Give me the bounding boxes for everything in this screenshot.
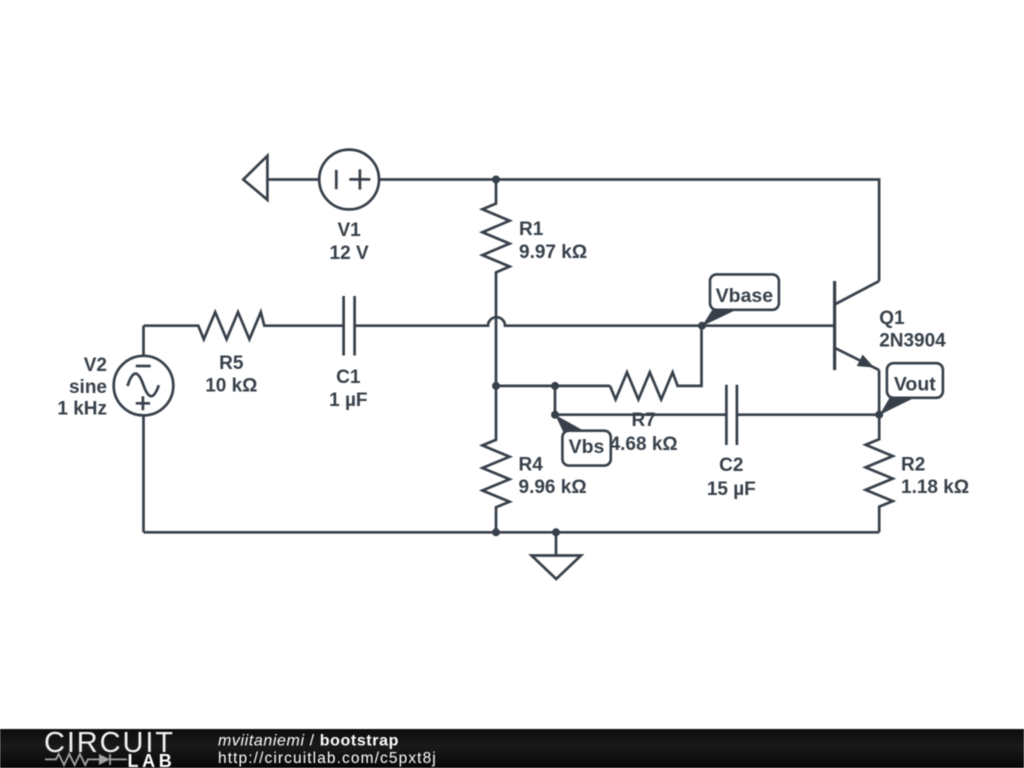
junction R4 bottom rail: [492, 528, 500, 536]
voltage source V1: [319, 150, 379, 210]
resistor R1: [482, 180, 509, 386]
svg-text:Vout: Vout: [894, 374, 936, 396]
svg-text:mviitaniemi / bootstrap: mviitaniemi / bootstrap: [218, 732, 399, 749]
svg-text:Vbs: Vbs: [569, 436, 605, 458]
svg-text:R5: R5: [219, 353, 244, 374]
svg-text:Q1: Q1: [879, 308, 905, 329]
node flag Vbs: [555, 415, 611, 466]
svg-text:R7: R7: [631, 410, 655, 431]
svg-text:12 V: 12 V: [330, 243, 369, 264]
node junction top of R1: [492, 176, 500, 184]
svg-text:15 µF: 15 µF: [707, 479, 756, 500]
junction R1/R4/R7: [492, 382, 500, 390]
svg-text:1 kHz: 1 kHz: [57, 398, 107, 419]
svg-text:sine: sine: [69, 377, 107, 398]
junction node Vout: [875, 411, 883, 419]
ground symbol: [532, 532, 582, 579]
svg-text:R2: R2: [901, 455, 925, 476]
capacitor C2: [726, 385, 737, 445]
svg-text:1.18 kΩ: 1.18 kΩ: [901, 477, 969, 498]
wire bottom rail: [144, 531, 880, 534]
wire middle horizontal R1/R4 to R7: [496, 385, 610, 388]
svg-text:V2: V2: [84, 355, 107, 376]
wire V2 top lead: [142, 326, 145, 356]
node flag Vout: [880, 363, 943, 415]
wire Vbs drop: [554, 386, 557, 415]
wire C1 to Q1 base with hop over R1 wire: [355, 317, 835, 326]
svg-text:10 kΩ: 10 kΩ: [205, 375, 257, 396]
svg-text:C1: C1: [336, 367, 361, 388]
svg-text:LAB: LAB: [128, 751, 176, 768]
svg-text:Vbase: Vbase: [716, 285, 774, 307]
transistor Q1: [835, 281, 880, 415]
junction mid wire to Vbs drop: [551, 382, 559, 390]
svg-text:V1: V1: [337, 220, 361, 241]
wire top rail to collector: [379, 180, 879, 282]
svg-text:2N3904: 2N3904: [879, 330, 946, 351]
svg-text:C2: C2: [719, 455, 743, 476]
wire C2 to Vout: [737, 413, 879, 416]
wire arrow to V1: [267, 178, 319, 181]
svg-text:http://circuitlab.com/c5pxt8j: http://circuitlab.com/c5pxt8j: [218, 750, 437, 767]
resistor R4: [482, 386, 509, 532]
junction node Vbs: [551, 411, 559, 419]
svg-text:9.97 kΩ: 9.97 kΩ: [519, 242, 587, 263]
resistor R2: [866, 415, 893, 533]
voltage source V2: [114, 356, 174, 416]
junction ground stem: [552, 528, 560, 536]
wire V2 bottom lead: [142, 415, 145, 532]
wire Vbs to C2: [555, 413, 726, 416]
svg-text:R4: R4: [519, 455, 544, 476]
svg-text:9.96 kΩ: 9.96 kΩ: [519, 477, 587, 498]
resistor R7: [610, 326, 702, 400]
logo squiggle resistor+diode: [45, 754, 127, 765]
capacitor C1: [344, 296, 355, 356]
svg-text:4.68 kΩ: 4.68 kΩ: [610, 434, 678, 455]
resistor R5: [144, 312, 344, 339]
node flag Vbase: [702, 274, 779, 326]
svg-text:1 µF: 1 µF: [329, 390, 367, 411]
svg-text:R1: R1: [519, 219, 544, 240]
net flag arrow (V1 left terminal): [243, 156, 267, 200]
junction node Vbase: [698, 322, 706, 330]
